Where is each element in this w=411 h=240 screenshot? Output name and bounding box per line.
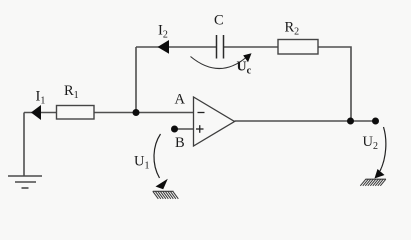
wire left vertical to ground (23, 113, 25, 177)
wire feedback top left (136, 46, 217, 48)
current arrow I2 (158, 40, 170, 54)
node output junction (347, 118, 354, 125)
resistor R2 (278, 40, 318, 55)
wire op-amp B input (175, 128, 194, 130)
op-amp minus pin (198, 112, 205, 114)
wire R2 to output node (318, 47, 351, 121)
node output terminal (372, 118, 379, 125)
wire feedback vertical (135, 47, 137, 113)
node B (171, 126, 178, 133)
node junction input (133, 109, 140, 116)
voltage arrow U1 (154, 134, 161, 178)
svg-text:A: A (175, 92, 186, 108)
current arrow I1 (31, 105, 41, 120)
ground left (8, 176, 42, 188)
svg-text:B: B (175, 135, 185, 151)
op-amp (194, 97, 235, 146)
ground hatched U2 (360, 179, 386, 186)
resistor R1 (57, 106, 95, 120)
capacitor C (217, 35, 224, 59)
voltage arrow U2 (380, 127, 386, 171)
wire output (235, 120, 376, 122)
voltage arrow Uc (191, 57, 247, 69)
ground hatched U1 (153, 191, 179, 199)
wire input horizontal (24, 112, 194, 114)
wire cap to R2 (224, 46, 278, 48)
op-amp plus pin (196, 125, 204, 133)
svg-text:C: C (214, 13, 224, 29)
